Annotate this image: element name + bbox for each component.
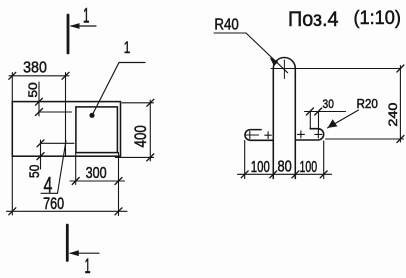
hole outline (76, 107, 118, 153)
position leader 4 (41, 141, 66, 194)
svg-text:380: 380 (23, 60, 47, 77)
svg-text:30: 30 (323, 97, 334, 111)
bottom dimension 100 80 100 (238, 141, 332, 179)
dimension 30 (305, 108, 346, 131)
R40 leader (214, 33, 288, 73)
dimension 380 (9, 72, 69, 156)
dimension 300 (70, 153, 125, 185)
svg-text:1: 1 (83, 4, 90, 28)
svg-text:100: 100 (300, 159, 318, 176)
svg-text:80: 80 (277, 159, 292, 176)
svg-text:1: 1 (124, 39, 131, 57)
svg-text:4: 4 (44, 173, 53, 198)
cap center lines (271, 60, 401, 79)
dimension 240 (326, 65, 404, 143)
svg-text:400: 400 (132, 125, 150, 147)
svg-text:(1:10): (1:10) (353, 8, 401, 29)
dimension 50 top (36, 82, 72, 116)
section mark bottom (67, 225, 99, 261)
left rail (245, 130, 273, 141)
svg-text:Поз.4: Поз.4 (288, 7, 339, 31)
svg-text:R40: R40 (214, 16, 239, 33)
wall outline with round cap (273, 58, 295, 179)
right rail center marks (297, 131, 321, 138)
hole leader 1 (89, 63, 145, 118)
dimension 400 (115, 99, 153, 161)
section mark top (68, 15, 96, 53)
dimension 760 (7, 153, 128, 216)
R20 leader (328, 110, 359, 128)
svg-text:50: 50 (27, 165, 42, 178)
plate outline (12, 102, 120, 157)
svg-text:R20: R20 (356, 96, 378, 111)
left rail center marks (246, 131, 272, 138)
svg-text:300: 300 (86, 165, 107, 182)
svg-text:1: 1 (85, 254, 91, 278)
svg-text:50: 50 (26, 82, 40, 98)
svg-text:100: 100 (251, 159, 270, 176)
dimension 50 bottom (37, 140, 74, 169)
right rail (296, 129, 324, 140)
svg-text:240: 240 (386, 102, 400, 126)
